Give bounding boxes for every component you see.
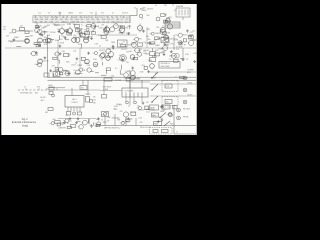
svg-text:470: 470 <box>68 54 71 56</box>
svg-text:0.01: 0.01 <box>67 24 71 26</box>
svg-text:0.02: 0.02 <box>93 100 96 102</box>
svg-text:100: 100 <box>101 17 104 19</box>
svg-text:VR1: VR1 <box>91 19 94 21</box>
svg-text:470: 470 <box>98 35 101 37</box>
svg-text:C12: C12 <box>87 32 90 34</box>
svg-text:R7: R7 <box>66 115 68 117</box>
svg-text:560: 560 <box>95 126 98 128</box>
svg-text:0.01: 0.01 <box>146 111 150 113</box>
svg-text:C12: C12 <box>139 49 142 51</box>
svg-text:2SA52: 2SA52 <box>158 48 164 51</box>
svg-text:1000 OHM: 1000 OHM <box>161 66 170 68</box>
svg-text:1000P: 1000P <box>116 104 122 106</box>
svg-text:0.01: 0.01 <box>107 19 110 21</box>
svg-text:0.5: 0.5 <box>169 58 171 60</box>
svg-text:0.1: 0.1 <box>24 87 26 89</box>
svg-text:470: 470 <box>101 13 104 15</box>
svg-text:0.047: 0.047 <box>126 33 130 35</box>
svg-text:220: 220 <box>107 57 110 59</box>
svg-text:C12: C12 <box>190 32 193 34</box>
svg-text:0.5: 0.5 <box>175 35 178 37</box>
svg-text:0.5: 0.5 <box>126 19 128 21</box>
svg-text:0.1: 0.1 <box>155 5 157 7</box>
svg-text:PB No.15 4.5V: PB No.15 4.5V <box>140 127 151 129</box>
svg-text:0.5: 0.5 <box>126 17 128 19</box>
svg-text:0.1: 0.1 <box>67 123 70 125</box>
svg-text:IC2613: IC2613 <box>71 102 77 104</box>
svg-text:0.1: 0.1 <box>81 25 83 27</box>
svg-text:0.047: 0.047 <box>35 64 40 66</box>
svg-text:2SC372: 2SC372 <box>85 94 91 96</box>
svg-text:100: 100 <box>108 49 111 51</box>
svg-text:0.1: 0.1 <box>176 131 178 133</box>
svg-text:0.5: 0.5 <box>155 73 158 75</box>
svg-text:100K: 100K <box>127 26 132 28</box>
svg-text:0.047: 0.047 <box>84 17 88 19</box>
svg-text:0.047: 0.047 <box>60 25 66 27</box>
svg-text:0.5: 0.5 <box>56 89 58 91</box>
svg-text:100K: 100K <box>60 42 65 44</box>
svg-text:2SA52: 2SA52 <box>141 9 146 12</box>
svg-text:2SA52: 2SA52 <box>68 12 73 15</box>
svg-text:R7: R7 <box>184 44 186 46</box>
svg-text:XTAL: XTAL <box>119 43 124 46</box>
svg-text:2SC372: 2SC372 <box>144 50 150 52</box>
svg-text:1000P: 1000P <box>77 29 83 31</box>
svg-text:0.1: 0.1 <box>134 8 136 10</box>
svg-text:0.047: 0.047 <box>75 19 79 21</box>
svg-text:100: 100 <box>106 17 109 19</box>
svg-text:0.5: 0.5 <box>81 21 83 23</box>
svg-text:4.7 OHM: 4.7 OHM <box>133 78 140 80</box>
svg-text:R7: R7 <box>66 17 68 19</box>
svg-text:2SC372: 2SC372 <box>147 8 153 10</box>
svg-text:470: 470 <box>45 21 48 23</box>
svg-text:100 22K: 100 22K <box>40 97 46 99</box>
svg-text:560: 560 <box>147 39 150 41</box>
svg-text:TP1: TP1 <box>3 26 6 28</box>
svg-text:0.1: 0.1 <box>175 76 177 78</box>
svg-text:560: 560 <box>41 28 44 30</box>
svg-text:100K: 100K <box>98 28 103 30</box>
svg-text:0.01: 0.01 <box>162 52 166 54</box>
svg-text:C12: C12 <box>40 17 43 19</box>
svg-text:1000P: 1000P <box>151 77 157 79</box>
svg-text:470: 470 <box>93 97 96 99</box>
svg-text:0.5: 0.5 <box>92 21 94 23</box>
svg-text:TO KEY: TO KEY <box>187 94 192 96</box>
svg-text:470: 470 <box>166 44 169 46</box>
svg-text:C12: C12 <box>38 13 41 15</box>
svg-text:33K: 33K <box>93 103 96 105</box>
svg-text:R7: R7 <box>57 29 59 31</box>
svg-text:0.047: 0.047 <box>71 65 76 67</box>
svg-text:C12: C12 <box>176 49 179 51</box>
svg-text:+B 0.5: +B 0.5 <box>40 100 45 102</box>
svg-text:220: 220 <box>52 65 55 67</box>
svg-text:2SC458 LG: 2SC458 LG <box>161 63 171 65</box>
svg-text:0.01: 0.01 <box>86 19 89 21</box>
svg-text:PHONE: PHONE <box>183 116 188 118</box>
svg-text:1000P: 1000P <box>54 25 60 27</box>
svg-text:2SA52: 2SA52 <box>155 32 160 35</box>
svg-text:4.7 OHM: 4.7 OHM <box>115 80 122 82</box>
svg-text:R7: R7 <box>128 71 130 73</box>
svg-text:560: 560 <box>45 19 48 21</box>
svg-text:560: 560 <box>128 45 131 47</box>
svg-text:R7: R7 <box>107 121 109 123</box>
svg-text:4.7K: 4.7K <box>169 44 174 46</box>
svg-text:47: 47 <box>134 112 136 114</box>
svg-text:S-METER: S-METER <box>176 6 184 8</box>
svg-text:C-METER: C-METER <box>58 128 66 130</box>
svg-text:0.1: 0.1 <box>115 68 118 70</box>
svg-text:47: 47 <box>58 60 60 62</box>
svg-text:2SA52: 2SA52 <box>155 44 160 47</box>
svg-text:0.01: 0.01 <box>45 17 48 19</box>
svg-text:0.047: 0.047 <box>116 21 120 23</box>
svg-text:220: 220 <box>102 21 105 23</box>
svg-text:2SC372: 2SC372 <box>99 50 106 52</box>
svg-text:PB 4.5: PB 4.5 <box>170 123 175 125</box>
svg-text:10K: 10K <box>20 25 23 27</box>
svg-text:100: 100 <box>9 32 12 34</box>
svg-text:100: 100 <box>6 35 9 37</box>
svg-text:0.01: 0.01 <box>139 118 143 120</box>
svg-text:0.01: 0.01 <box>55 21 58 23</box>
svg-text:External maintenance: External maintenance <box>12 121 37 124</box>
svg-text:C12: C12 <box>143 42 146 44</box>
svg-text:0.5: 0.5 <box>85 26 87 28</box>
svg-text:0.1: 0.1 <box>174 10 176 12</box>
svg-text:6.8K: 6.8K <box>36 26 41 28</box>
svg-text:47: 47 <box>99 45 101 47</box>
svg-text:0.5: 0.5 <box>128 106 130 108</box>
svg-text:2SC372: 2SC372 <box>138 109 145 111</box>
svg-text:220: 220 <box>148 43 151 45</box>
svg-text:0.1: 0.1 <box>112 13 114 15</box>
svg-text:470: 470 <box>79 13 82 15</box>
svg-text:220: 220 <box>146 102 149 104</box>
svg-text:VR1: VR1 <box>45 112 48 114</box>
svg-text:VR1: VR1 <box>168 17 172 19</box>
svg-text:220: 220 <box>192 31 195 33</box>
svg-text:560: 560 <box>96 119 99 121</box>
svg-text:0.1: 0.1 <box>101 59 103 61</box>
svg-text:2SC372: 2SC372 <box>182 35 188 37</box>
svg-text:C12: C12 <box>113 109 116 111</box>
svg-text:100: 100 <box>73 51 76 53</box>
svg-text:560: 560 <box>52 119 55 121</box>
svg-text:100: 100 <box>69 121 72 123</box>
svg-text:47: 47 <box>161 118 163 120</box>
svg-text:(EXT): (EXT) <box>187 72 191 74</box>
svg-text:0.5: 0.5 <box>168 107 171 109</box>
svg-text:0.01: 0.01 <box>160 30 163 32</box>
svg-text:0.01: 0.01 <box>90 36 93 38</box>
svg-text:R7: R7 <box>112 19 114 21</box>
svg-text:0.1: 0.1 <box>120 21 122 23</box>
svg-text:(map): (map) <box>22 126 28 128</box>
svg-text:R7: R7 <box>75 17 77 19</box>
svg-text:2SB: 2SB <box>76 21 79 23</box>
svg-text:0.1: 0.1 <box>121 19 123 21</box>
svg-text:47: 47 <box>141 18 143 20</box>
svg-text:220: 220 <box>90 13 93 15</box>
svg-text:0.5: 0.5 <box>142 31 144 33</box>
svg-text:TO MIC: TO MIC <box>187 82 193 84</box>
svg-text:2SC372: 2SC372 <box>42 61 48 63</box>
svg-text:1000P: 1000P <box>48 85 52 87</box>
svg-text:0.1: 0.1 <box>131 80 133 82</box>
svg-text:TO SPKR: TO SPKR <box>187 70 194 72</box>
svg-text:PB OSC: PB OSC <box>122 121 129 123</box>
svg-text:47 OHM: 47 OHM <box>176 46 183 48</box>
svg-text:VR1: VR1 <box>63 37 66 39</box>
svg-text:OSC: OSC <box>162 40 167 42</box>
svg-text:0.1: 0.1 <box>172 4 174 6</box>
svg-text:4.7K: 4.7K <box>37 87 40 89</box>
svg-text:EXT SPKR: EXT SPKR <box>103 87 112 89</box>
svg-text:0.047: 0.047 <box>185 54 189 56</box>
svg-text:0.047: 0.047 <box>188 36 192 38</box>
svg-text:2SC372: 2SC372 <box>122 13 128 15</box>
svg-text:TO POWER: TO POWER <box>124 91 134 93</box>
svg-text:470: 470 <box>3 29 6 31</box>
svg-text:560: 560 <box>60 19 63 21</box>
svg-text:470: 470 <box>140 122 143 124</box>
svg-text:R7: R7 <box>189 39 191 41</box>
svg-text:100: 100 <box>107 21 110 23</box>
svg-text:VR1: VR1 <box>156 27 159 29</box>
